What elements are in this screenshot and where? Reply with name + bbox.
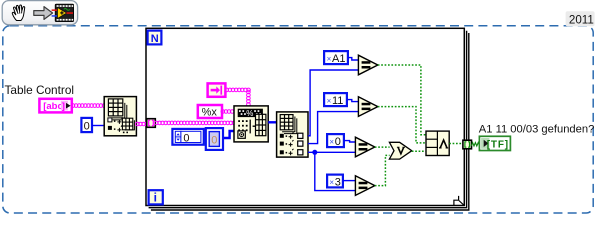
wire: boolean dotted Equal-1 to And input 1 [378,65,426,135]
wire junction dot [312,150,317,155]
node: Equal? 2 [358,97,377,117]
wire: string wavy from Index Array 1 to loop tunnel [136,122,149,126]
VI (film strip) tool icon [52,4,74,21]
tab constant (delimiter) [208,83,226,96]
svg-text:0: 0 [84,121,90,133]
node: Index Array 2 [277,112,308,157]
numeric constant x0 [327,134,344,148]
wire: string wavy from tunnel to Spreadsheet String To Array [155,121,236,125]
wire: element 2 from Index Array 2 to Equal-3 lower input [308,151,355,153]
node: Compound Arithmetic (And) [426,131,449,155]
wire: boolean wavy from tunnel to TF indicator [471,143,479,146]
svg-text:[TF]: [TF] [487,139,509,150]
wire: boolean dotted And to output tunnel [449,143,463,145]
numeric constant 0 (selected, lavender) [206,128,223,150]
wire: boolean dotted Equal-3 to Or upper input [375,146,390,148]
svg-text:0: 0 [211,135,217,147]
node: Equal? 1 [358,55,377,75]
wire: numeric 0 to Index Array 1 [92,125,105,127]
node: Equal? 3 [355,137,374,157]
svg-text:Table Control: Table Control [5,83,75,97]
loop resize dog-ear corner [454,196,464,206]
svg-text:0: 0 [335,136,341,148]
string control terminal [abc] (Table Control) [39,99,71,113]
wire: string wavy from [abc] to Index Array 1 [71,104,106,108]
svg-text:×: × [329,178,334,187]
wire: element 0 from Index Array 2 up to Equal-1 lower input [308,70,358,136]
wire: boolean dotted Or to And input 3 [412,150,426,152]
string constant %x (format string) [198,105,222,118]
wire: branch from junction down to Equal-4 lower input [315,152,356,190]
svg-text:]: ] [62,101,65,112]
svg-text:A1: A1 [332,53,345,65]
wire: x11 to Equal-2 upper input [347,100,358,102]
svg-text:11: 11 [332,95,343,107]
label: A1 11 00/03 gefunden? [479,123,595,135]
loop output tunnel [463,140,472,149]
loop iteration terminal i [149,190,163,204]
wire: x3 to Equal-4 upper input [343,180,355,182]
wire: string wavy from tab constant down into node top [225,88,250,106]
svg-text:[abc: [abc [43,101,63,112]
numeric constant 0 (index) [81,118,92,133]
wire: element 1 from Index Array 2 up to Equal-2 lower input [308,112,358,144]
svg-text:×: × [327,55,332,64]
node: Index Array 1 [104,97,136,136]
loop input tunnel (auto-indexing) [147,119,156,128]
wire: numeric from lavender 0 to node lower-left input [224,131,234,138]
hand (pan) tool icon [12,5,24,21]
wire: string wavy from %x to Spreadsheet String To Array [221,110,234,114]
selection marquee (dashed blue rectangle) [3,26,593,213]
wire: numeric array from node to Index Array 2 [268,121,276,123]
svg-text:%: % [246,109,253,118]
svg-text:×: × [327,97,332,106]
svg-text:2011: 2011 [569,14,594,27]
svg-text:0: 0 [183,132,189,144]
numeric constant x3 [327,175,343,189]
loop count terminal N [148,31,162,45]
svg-text:×: × [329,138,334,147]
svg-text:3: 3 [335,176,341,188]
numeric constant x11 [324,93,347,107]
position/select (arrow) tool icon [34,7,53,20]
wire: x0 to Equal-3 upper input [344,141,355,142]
node: Spreadsheet String To Array [234,106,268,142]
label 2011 (tip strip) [566,11,595,26]
numeric control terminal with spinner (0) [172,129,203,145]
svg-text:A1 11 00/03 gefunden?: A1 11 00/03 gefunden? [479,123,595,135]
node: Equal? 4 [355,176,374,196]
numeric constant xA1 [324,51,348,65]
svg-text:N: N [151,33,159,45]
wire: boolean dotted Equal-4 to Or lower input [375,155,390,185]
node: Or gate [389,142,411,159]
svg-text:i: i [154,191,157,205]
svg-text:%x: %x [202,106,218,118]
wire: boolean dotted Equal-2 to And input 2 [378,107,426,143]
wire: xA1 to Equal-1 upper input [348,58,358,60]
tools palette strip (top-left) [2,1,77,25]
boolean indicator terminal [TF] [479,136,510,150]
label Table Control [5,83,75,97]
for loop border [146,28,469,210]
